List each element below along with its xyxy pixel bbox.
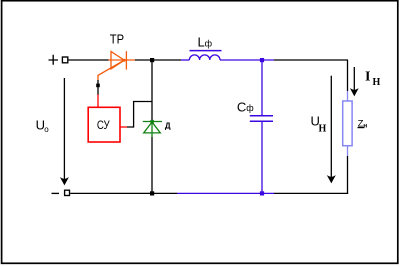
wire plus terminal to thyristor bbox=[69, 59, 109, 61]
CY output red wire bbox=[120, 126, 127, 128]
plus terminal bbox=[49, 55, 68, 65]
node B junction dot bbox=[260, 58, 264, 62]
thyristor TP bbox=[98, 51, 135, 80]
svg-text:ф: ф bbox=[205, 39, 213, 49]
voltage arrow U0 bbox=[62, 78, 68, 184]
svg-text:Н: Н bbox=[373, 77, 381, 88]
blue stub below load bbox=[347, 146, 349, 156]
svg-text:СУ: СУ bbox=[97, 118, 110, 132]
gate wire red segment to CY bbox=[97, 95, 99, 108]
svg-text:Н: Н bbox=[319, 124, 327, 135]
wire down to load bbox=[347, 60, 349, 91]
diode D bbox=[143, 122, 162, 138]
wire node A down to diode bbox=[151, 60, 153, 122]
bottom wire right black bbox=[274, 192, 348, 194]
wire diode to bottom bbox=[151, 137, 153, 193]
control unit CY box bbox=[88, 107, 120, 142]
svg-text:о: о bbox=[44, 125, 49, 134]
voltage arrow UH bbox=[328, 76, 334, 182]
wire node A to inductor bbox=[152, 59, 181, 61]
load Zн bbox=[343, 101, 352, 146]
inductor Lf bbox=[181, 55, 274, 60]
node A junction dot bbox=[150, 58, 154, 62]
svg-text:C: C bbox=[237, 100, 246, 115]
capacitor Cf bbox=[250, 116, 273, 122]
capacitor branch wire bottom bbox=[261, 121, 263, 193]
svg-text:Д: Д bbox=[165, 121, 171, 130]
top wire to load corner bbox=[274, 59, 348, 61]
gate wire black segment bbox=[97, 80, 99, 95]
svg-text:ТР: ТР bbox=[110, 32, 124, 47]
CY output black wire bbox=[127, 102, 152, 128]
minus terminal bbox=[52, 190, 70, 195]
capacitor branch wire top bbox=[261, 60, 263, 116]
current arrow IH bbox=[352, 67, 358, 95]
blue stub above load bbox=[347, 91, 349, 101]
svg-text:I: I bbox=[365, 70, 370, 85]
diode junction dot bbox=[150, 120, 153, 123]
wire load to bottom bbox=[347, 156, 349, 193]
svg-text:ф: ф bbox=[246, 103, 254, 113]
bottom junction dot diode branch bbox=[150, 191, 154, 195]
wire thyristor cathode to node A bbox=[135, 59, 152, 61]
label Lf underline bbox=[190, 50, 222, 52]
bottom wire blue segment bbox=[177, 192, 274, 194]
node B bottom junction dot bbox=[260, 191, 264, 195]
svg-text:н: н bbox=[363, 122, 367, 129]
bottom wire left black bbox=[70, 192, 177, 194]
gate junction dot bbox=[96, 84, 100, 88]
